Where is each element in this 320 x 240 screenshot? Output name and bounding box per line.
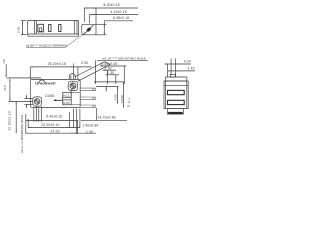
svg-text:27.00: 27.00	[51, 129, 60, 133]
moving blade arrow	[54, 99, 63, 101]
switch body outline (front view)	[30, 79, 80, 107]
mounting hole boss (bottom left)	[33, 97, 42, 106]
svg-text:N.C2: N.C2	[63, 93, 70, 97]
lever tip edge	[105, 62, 110, 65]
right side vertical dimension 11.60	[123, 82, 125, 108]
lever arm upper edge	[76, 62, 105, 77]
right side vertical dimension short	[105, 87, 107, 92]
svg-text:⌀3.10+0.05 MOUNTING HOLE: ⌀3.10+0.05 MOUNTING HOLE	[103, 56, 146, 60]
svg-text:14.70±0.80: 14.70±0.80	[98, 115, 116, 119]
terminal box (right, angled terminal detail)	[82, 24, 96, 35]
dimension 6.30 arrows	[22, 21, 23, 35]
contact link lines	[71, 91, 80, 93]
N.C2 contact box	[63, 92, 71, 97]
lever (gray free end)	[7, 77, 41, 79]
svg-text:O.P: O.P	[3, 85, 7, 91]
extension lines from dims to lever area	[94, 60, 125, 84]
svg-text:F.P: F.P	[2, 59, 6, 64]
side view inner verticals	[164, 81, 188, 109]
svg-text:5.40±0.10: 5.40±0.10	[46, 115, 62, 119]
dimension 22.20	[28, 126, 80, 128]
side view terminal slot 1	[168, 90, 185, 94]
svg-text:4.20: 4.20	[184, 60, 191, 64]
side view base dark band	[168, 112, 183, 114]
plunger	[69, 74, 75, 80]
hole small dim arrows	[25, 95, 33, 108]
svg-text:4.10±0.15: 4.10±0.15	[111, 10, 127, 14]
bottom dims: extension lines	[26, 107, 97, 134]
side view base	[167, 109, 183, 115]
terminal tab N.O	[80, 97, 96, 100]
dimension 1.00	[70, 132, 96, 134]
svg-text:1.30: 1.30	[107, 71, 114, 75]
switch body outline (top view)	[28, 20, 79, 36]
svg-text:Unionwell: Unionwell	[35, 80, 55, 85]
dimension 5.40	[26, 119, 78, 121]
top right dimension 6.35	[96, 21, 133, 35]
side view terminal slot 2	[168, 100, 185, 104]
svg-text:COM1: COM1	[45, 94, 55, 98]
dimension 27.00	[26, 132, 78, 134]
top right dimension 4.10	[90, 15, 138, 24]
right side vertical dimension 4.90	[117, 87, 119, 104]
dimension 6.30 vertical line	[21, 21, 27, 35]
side view body	[164, 81, 188, 109]
terminal tab COM	[80, 105, 96, 108]
svg-text:10.30±0.10: 10.30±0.10	[7, 111, 11, 131]
angled terminal line	[83, 25, 93, 35]
svg-text:0.40±0.05: 0.40±0.05	[101, 62, 117, 66]
svg-text:26.20±0.15: 26.20±0.15	[48, 62, 66, 66]
lever arm lower edge	[78, 65, 110, 82]
terminal slot 3	[59, 25, 61, 32]
O.P dimension line	[9, 79, 11, 102]
horizontal extension tick y86.5	[96, 86, 119, 88]
O.P reference line	[9, 100, 33, 102]
terminal slot 1	[38, 24, 44, 32]
svg-text:8.30±0.15: 8.30±0.15	[104, 3, 120, 7]
svg-text:6.30: 6.30	[17, 27, 21, 33]
terminal tab N.C	[80, 88, 96, 91]
body inner left double line	[35, 20, 37, 34]
mounting hole boss (top right)	[68, 81, 77, 90]
svg-text:1.90±0.80: 1.90±0.80	[82, 124, 98, 128]
svg-text:2.90: 2.90	[81, 61, 88, 65]
top right dimension 8.30	[84, 8, 138, 24]
svg-text:⌀1.85+0.1 HOLE IN TERMINAL: ⌀1.85+0.1 HOLE IN TERMINAL	[26, 43, 68, 47]
body inner right double line	[74, 20, 77, 34]
leader line from hole label	[26, 47, 65, 49]
vertical dim line bottom left	[15, 101, 17, 133]
dimension 14.70	[81, 119, 127, 121]
svg-text:1.00: 1.00	[86, 130, 93, 134]
N.O3 contact box	[63, 100, 71, 105]
svg-text:⌀3.1+0.05 MOUNTING HOLE: ⌀3.1+0.05 MOUNTING HOLE	[20, 115, 24, 153]
svg-text:6.35±0.10: 6.35±0.10	[113, 16, 129, 20]
terminal slot 2	[49, 25, 51, 32]
svg-text:4.90: 4.90	[114, 94, 118, 100]
svg-text:22.20±0.10: 22.20±0.10	[41, 123, 59, 127]
side view top cap	[165, 77, 187, 81]
side view plunger	[170, 74, 175, 77]
svg-text:2.40: 2.40	[188, 67, 195, 71]
mounting hole bottom left	[34, 99, 40, 105]
hole in terminal (dark blob)	[86, 27, 92, 33]
mounting hole top right	[70, 81, 76, 90]
svg-text:N.O3: N.O3	[63, 101, 70, 105]
F.P dimension line	[5, 64, 7, 77]
svg-text:11.6₀.₅: 11.6₀.₅	[127, 97, 131, 107]
blade vertical link	[70, 89, 72, 100]
body inner bottom line	[28, 33, 79, 35]
lever hinge clip	[39, 80, 46, 83]
